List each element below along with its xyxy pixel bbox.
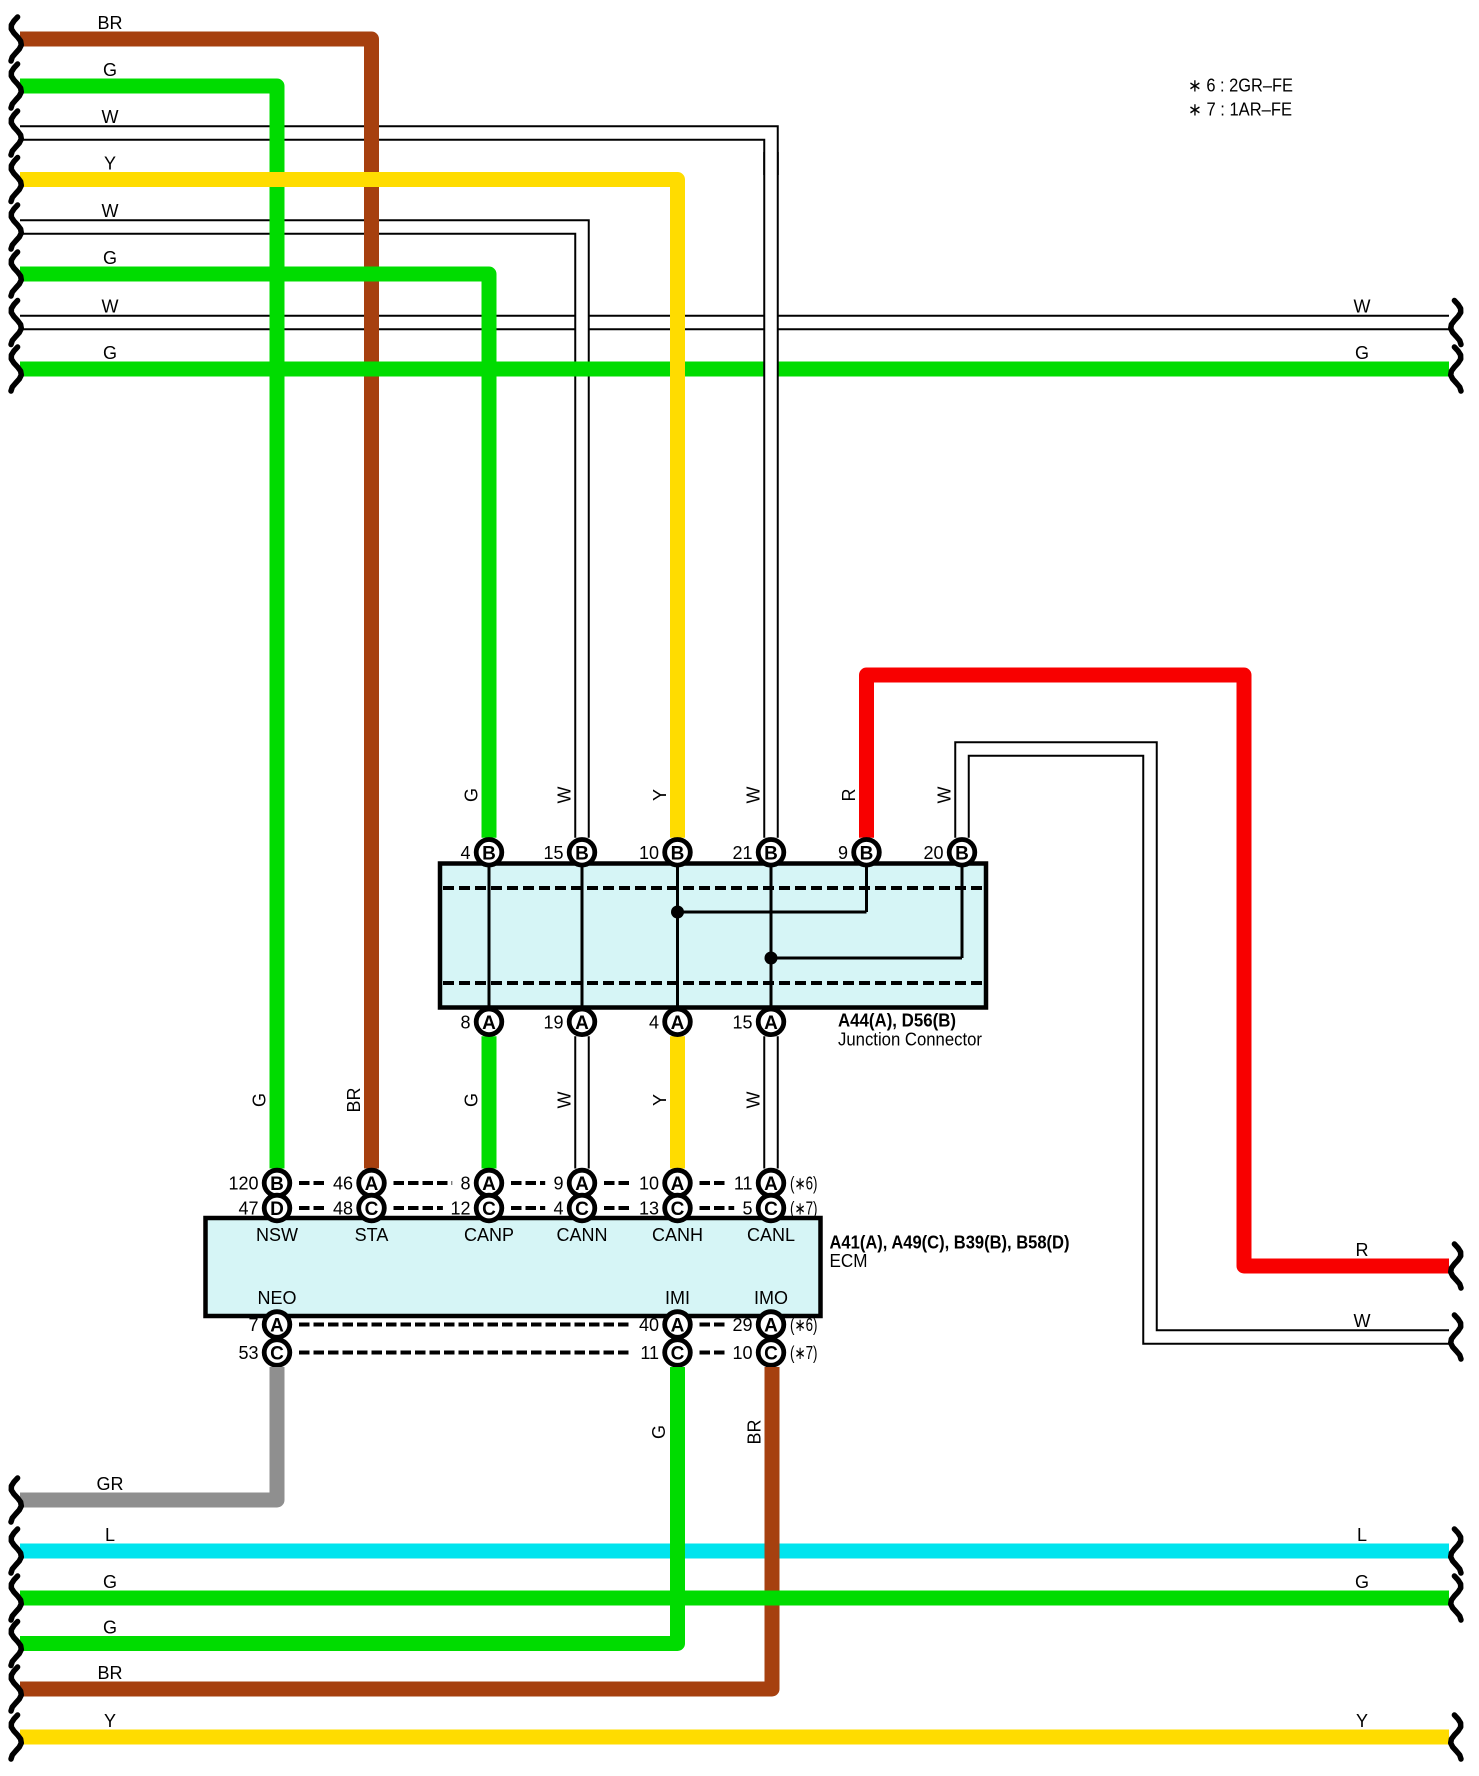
svg-text:(∗6): (∗6) bbox=[790, 1174, 818, 1194]
wire G from ECM 11C to left edge bbox=[20, 1367, 678, 1644]
ECM terminal name CANN bbox=[556, 1225, 607, 1245]
svg-text:7: 7 bbox=[248, 1315, 258, 1335]
junction connector label bbox=[838, 1011, 982, 1050]
wire color label L left bbox=[105, 1525, 115, 1545]
ECM pin 46(A) bbox=[333, 1170, 384, 1196]
svg-text:46: 46 bbox=[333, 1174, 353, 1194]
svg-text:9: 9 bbox=[838, 843, 848, 863]
svg-text:11: 11 bbox=[640, 1343, 659, 1363]
wire color label G left bbox=[103, 343, 117, 363]
svg-text:A: A bbox=[365, 1174, 379, 1195]
junction node joint 21B-20B bbox=[765, 952, 778, 965]
svg-text:D: D bbox=[270, 1199, 284, 1220]
svg-text:A: A bbox=[764, 1174, 778, 1195]
ECM pin variant note (*6) bottom bbox=[790, 1315, 818, 1335]
svg-text:53: 53 bbox=[238, 1343, 258, 1363]
svg-text:(∗7): (∗7) bbox=[790, 1343, 818, 1363]
wire color label W left bbox=[102, 297, 119, 317]
svg-text:4: 4 bbox=[460, 843, 470, 863]
ECM pin 11(C) bbox=[640, 1340, 690, 1366]
svg-text:CANH: CANH bbox=[652, 1225, 703, 1245]
wire R junction 9B to right edge bbox=[867, 675, 1450, 1266]
rotated label G above ECM bbox=[250, 1093, 270, 1107]
svg-text:19: 19 bbox=[543, 1012, 563, 1032]
ECM terminal name NSW bbox=[256, 1225, 298, 1245]
wire W vertical into junction 21B bbox=[763, 152, 779, 838]
svg-text:10: 10 bbox=[639, 843, 659, 863]
wire W junction 19A to ECM 9A bbox=[574, 1036, 590, 1168]
wire color label Y left bbox=[104, 154, 116, 174]
wire Y full-width bottom (Y) bbox=[20, 1730, 1449, 1745]
left edge break for G wire bbox=[11, 252, 21, 296]
svg-text:A44(A), D56(B): A44(A), D56(B) bbox=[838, 1011, 956, 1031]
junction pin 10(B) bbox=[639, 840, 690, 866]
wire Y from left to junction 10B bbox=[20, 180, 678, 838]
svg-text:L: L bbox=[105, 1525, 115, 1545]
svg-text:(∗6): (∗6) bbox=[790, 1315, 818, 1335]
svg-text:15: 15 bbox=[732, 1012, 752, 1032]
wire color label L right bbox=[1357, 1525, 1367, 1545]
svg-text:8: 8 bbox=[460, 1012, 470, 1032]
svg-text:IMO: IMO bbox=[754, 1288, 788, 1308]
svg-text:29: 29 bbox=[732, 1315, 752, 1335]
ECM pin 10(C) bbox=[732, 1340, 783, 1366]
svg-text:BR: BR bbox=[344, 1087, 364, 1112]
ECM pin 4(C) bbox=[553, 1195, 594, 1221]
ECM pin 13(C) bbox=[639, 1195, 690, 1221]
left edge break for G wire bbox=[11, 64, 21, 108]
svg-text:NEO: NEO bbox=[257, 1288, 296, 1308]
rotated label W above ECM bbox=[744, 1092, 764, 1109]
svg-text:A: A bbox=[575, 1013, 589, 1034]
svg-text:Y: Y bbox=[1356, 1711, 1368, 1731]
svg-text:ECM: ECM bbox=[830, 1251, 868, 1271]
svg-text:CANN: CANN bbox=[556, 1225, 607, 1245]
svg-text:∗ 7 : 1AR–FE: ∗ 7 : 1AR–FE bbox=[1188, 100, 1292, 120]
svg-text:A: A bbox=[764, 1013, 778, 1034]
svg-text:G: G bbox=[103, 248, 117, 268]
svg-text:G: G bbox=[250, 1093, 270, 1107]
wire color label W left bbox=[102, 107, 119, 127]
wire color label W right bbox=[1354, 1311, 1371, 1331]
wire color label Y right bbox=[1356, 1711, 1368, 1731]
junction pin 4(B) bbox=[460, 840, 501, 866]
svg-text:B: B bbox=[270, 1174, 284, 1195]
right edge break for L wire bbox=[1451, 1529, 1461, 1573]
junction node joint 10B-9B bbox=[671, 906, 684, 919]
junction pin 9(B) bbox=[838, 840, 879, 866]
svg-text:C: C bbox=[270, 1344, 284, 1365]
ECM pin 7(A) bbox=[248, 1312, 289, 1338]
svg-text:15: 15 bbox=[543, 843, 563, 863]
svg-text:C: C bbox=[671, 1344, 685, 1365]
ECM pin 53(C) bbox=[238, 1340, 289, 1366]
svg-text:G: G bbox=[103, 60, 117, 80]
svg-text:B: B bbox=[482, 843, 496, 864]
wire W full-width upper (W) bbox=[20, 315, 1449, 331]
svg-text:A: A bbox=[575, 1174, 589, 1195]
left edge break for G wire bbox=[11, 347, 21, 391]
svg-text:W: W bbox=[744, 787, 764, 804]
svg-text:5: 5 bbox=[742, 1199, 752, 1219]
svg-text:21: 21 bbox=[732, 843, 752, 863]
junction pin 4(A) bbox=[649, 1009, 690, 1035]
junction pin 8(A) bbox=[460, 1009, 501, 1035]
svg-text:G: G bbox=[1355, 343, 1369, 363]
wire color label BR left bbox=[97, 1663, 122, 1683]
svg-text:40: 40 bbox=[639, 1315, 659, 1335]
wire G junction 8A to ECM 8A bbox=[482, 1036, 497, 1168]
left edge break for BR wire bbox=[11, 1667, 21, 1711]
svg-text:Y: Y bbox=[650, 789, 670, 801]
svg-text:B: B bbox=[955, 843, 969, 864]
rotated label BR below ECM bbox=[745, 1419, 765, 1444]
svg-text:W: W bbox=[1354, 1311, 1371, 1331]
wire GR from ECM 53C to left edge bbox=[20, 1367, 277, 1500]
svg-text:A: A bbox=[270, 1316, 284, 1337]
svg-text:A: A bbox=[764, 1316, 778, 1337]
rotated label BR above ECM bbox=[344, 1087, 364, 1112]
rotated label G above ECM bbox=[462, 1093, 482, 1107]
svg-text:B: B bbox=[860, 843, 874, 864]
svg-text:G: G bbox=[462, 1093, 482, 1107]
svg-text:8: 8 bbox=[460, 1174, 470, 1194]
svg-text:W: W bbox=[935, 787, 955, 804]
wire color label G left bbox=[103, 1572, 117, 1592]
svg-text:B: B bbox=[764, 843, 778, 864]
ECM top pin tie dashes bbox=[299, 1183, 734, 1208]
wire BR from left to ECM pin 46A bbox=[20, 39, 372, 1169]
left edge break for G wire bbox=[11, 1576, 21, 1620]
svg-text:CANP: CANP bbox=[464, 1225, 514, 1245]
svg-text:48: 48 bbox=[333, 1199, 353, 1219]
svg-text:10: 10 bbox=[639, 1174, 659, 1194]
left edge break for W wire bbox=[11, 301, 21, 345]
wire color label G left bbox=[103, 248, 117, 268]
ECM A41(A)/A49(C)/B39(B)/B58(D) box bbox=[206, 1218, 821, 1316]
left edge break for W wire bbox=[11, 111, 21, 155]
ECM terminal name STA bbox=[355, 1225, 389, 1245]
rotated label Y above ECM bbox=[650, 1094, 670, 1106]
svg-text:47: 47 bbox=[238, 1199, 258, 1219]
wire color label Y left bbox=[104, 1711, 116, 1731]
wire BR from ECM 10C to left edge bbox=[20, 1367, 772, 1689]
junction pin 15(B) bbox=[543, 840, 594, 866]
ECM terminal name NEO bbox=[257, 1288, 296, 1308]
svg-text:Y: Y bbox=[104, 154, 116, 174]
svg-text:A: A bbox=[482, 1174, 496, 1195]
svg-text:∗ 6 : 2GR–FE: ∗ 6 : 2GR–FE bbox=[1188, 76, 1293, 96]
rotated label W above junction bbox=[555, 787, 575, 804]
svg-text:(∗7): (∗7) bbox=[790, 1199, 818, 1219]
left edge break for Y wire bbox=[11, 158, 21, 202]
svg-text:C: C bbox=[365, 1199, 379, 1220]
left edge break for G wire bbox=[11, 1622, 21, 1666]
ECM pin 29(A) bbox=[732, 1312, 783, 1338]
svg-text:20: 20 bbox=[923, 843, 943, 863]
wire color label G left bbox=[103, 60, 117, 80]
svg-text:W: W bbox=[555, 1092, 575, 1109]
svg-text:A: A bbox=[671, 1174, 685, 1195]
ECM pin variant note (*6) bbox=[790, 1174, 818, 1194]
wire W junction 20B to right edge bbox=[962, 749, 1449, 1337]
svg-text:G: G bbox=[103, 1618, 117, 1638]
svg-text:G: G bbox=[103, 343, 117, 363]
right edge break for W wire bbox=[1451, 1315, 1461, 1359]
ECM terminal name IMI bbox=[665, 1288, 690, 1308]
svg-text:Y: Y bbox=[650, 1094, 670, 1106]
svg-text:BR: BR bbox=[97, 13, 122, 33]
rotated label W above junction bbox=[744, 787, 764, 804]
wire color label W left bbox=[102, 201, 119, 221]
svg-text:Junction Connector: Junction Connector bbox=[838, 1030, 982, 1050]
ECM pin 9(A) bbox=[553, 1170, 594, 1196]
ECM pin 48(C) bbox=[333, 1195, 384, 1221]
svg-text:A41(A), A49(C), B39(B), B58(D): A41(A), A49(C), B39(B), B58(D) bbox=[830, 1233, 1070, 1253]
wire color label GR left bbox=[97, 1474, 124, 1494]
wire color label G left bbox=[103, 1618, 117, 1638]
svg-text:W: W bbox=[102, 201, 119, 221]
left edge break for GR wire bbox=[11, 1478, 21, 1522]
wire color label G right bbox=[1355, 1572, 1369, 1592]
rotated label Y above junction bbox=[650, 789, 670, 801]
svg-text:B: B bbox=[671, 843, 685, 864]
left edge break for BR wire bbox=[11, 17, 21, 61]
junction pin 19(A) bbox=[543, 1009, 594, 1035]
wire G from left to ECM pin 120B bbox=[20, 86, 277, 1169]
ECM terminal name CANP bbox=[464, 1225, 514, 1245]
wire G full-width upper (G) bbox=[20, 362, 1449, 377]
ECM pin 40(A) bbox=[639, 1312, 690, 1338]
right edge break for Y wire bbox=[1451, 1715, 1461, 1759]
svg-text:L: L bbox=[1357, 1525, 1367, 1545]
wire W from left toward junction 21B (horizontal part) bbox=[20, 133, 771, 175]
svg-text:STA: STA bbox=[355, 1225, 389, 1245]
wire Y junction 4A to ECM 10A bbox=[670, 1036, 685, 1168]
svg-text:4: 4 bbox=[649, 1012, 659, 1032]
wire color label R right bbox=[1356, 1240, 1369, 1260]
svg-text:9: 9 bbox=[553, 1174, 563, 1194]
wire color label G right bbox=[1355, 343, 1369, 363]
svg-text:BR: BR bbox=[745, 1419, 765, 1444]
svg-text:CANL: CANL bbox=[747, 1225, 795, 1245]
ECM pin 5(C) bbox=[742, 1195, 783, 1221]
svg-text:G: G bbox=[462, 788, 482, 802]
svg-text:12: 12 bbox=[450, 1199, 470, 1219]
right edge break for W wire bbox=[1451, 301, 1461, 345]
junction connector A44(A)/D56(B) box with bus bars bbox=[440, 864, 986, 1008]
left edge break for W wire bbox=[11, 205, 21, 249]
note *7 engine variant bbox=[1188, 100, 1292, 120]
rotated label G above junction bbox=[462, 788, 482, 802]
ECM pin 12(C) bbox=[450, 1195, 501, 1221]
svg-text:W: W bbox=[555, 787, 575, 804]
ECM terminal name CANH bbox=[652, 1225, 703, 1245]
wire color label W right bbox=[1354, 297, 1371, 317]
svg-text:G: G bbox=[1355, 1572, 1369, 1592]
svg-text:A: A bbox=[671, 1316, 685, 1337]
right edge break for G wire bbox=[1451, 1576, 1461, 1620]
svg-text:Y: Y bbox=[104, 1711, 116, 1731]
svg-text:4: 4 bbox=[553, 1199, 563, 1219]
svg-text:C: C bbox=[575, 1199, 589, 1220]
wire color label BR left bbox=[97, 13, 122, 33]
ECM bottom pin tie dashes bbox=[299, 1325, 725, 1353]
ECM pin 120(B) bbox=[228, 1170, 289, 1196]
right edge break for G wire bbox=[1451, 347, 1461, 391]
svg-text:BR: BR bbox=[97, 1663, 122, 1683]
rotated label W above ECM bbox=[555, 1092, 575, 1109]
ECM pin 11(A) bbox=[734, 1170, 784, 1196]
junction pin 20(B) bbox=[923, 840, 974, 866]
ECM pin 10(A) bbox=[639, 1170, 690, 1196]
svg-text:NSW: NSW bbox=[256, 1225, 298, 1245]
svg-text:120: 120 bbox=[228, 1174, 258, 1194]
rotated label W above junction bbox=[935, 787, 955, 804]
note *6 engine variant bbox=[1188, 76, 1293, 96]
svg-text:C: C bbox=[671, 1199, 685, 1220]
ECM pin 8(A) bbox=[460, 1170, 501, 1196]
wire G full-width bottom (G) bbox=[20, 1591, 1449, 1606]
ECM pin 47(D) bbox=[238, 1195, 289, 1221]
svg-text:10: 10 bbox=[732, 1343, 752, 1363]
svg-text:G: G bbox=[103, 1572, 117, 1592]
svg-text:13: 13 bbox=[639, 1199, 659, 1219]
svg-text:W: W bbox=[744, 1092, 764, 1109]
rotated label R above junction bbox=[839, 789, 859, 802]
svg-text:GR: GR bbox=[97, 1474, 124, 1494]
svg-text:C: C bbox=[764, 1344, 778, 1365]
svg-text:R: R bbox=[839, 789, 859, 802]
svg-text:A: A bbox=[671, 1013, 685, 1034]
rotated label G below ECM bbox=[649, 1425, 669, 1439]
svg-text:W: W bbox=[1354, 297, 1371, 317]
svg-text:B: B bbox=[575, 843, 589, 864]
left edge break for Y wire bbox=[11, 1715, 21, 1759]
svg-text:W: W bbox=[102, 107, 119, 127]
svg-text:11: 11 bbox=[734, 1174, 753, 1194]
svg-text:A: A bbox=[482, 1013, 496, 1034]
svg-text:C: C bbox=[482, 1199, 496, 1220]
wire L full-width bottom (L) bbox=[20, 1544, 1449, 1559]
svg-text:IMI: IMI bbox=[665, 1288, 690, 1308]
svg-text:R: R bbox=[1356, 1240, 1369, 1260]
wire G from left to junction 4B bbox=[20, 274, 489, 838]
junction pin 21(B) bbox=[732, 840, 783, 866]
ECM pin variant note (*7) bbox=[790, 1199, 818, 1219]
wire W from left to junction 15B bbox=[20, 227, 582, 838]
svg-text:G: G bbox=[649, 1425, 669, 1439]
svg-text:W: W bbox=[102, 297, 119, 317]
svg-text:C: C bbox=[764, 1199, 778, 1220]
right edge break for R wire bbox=[1451, 1244, 1461, 1288]
junction pin 15(A) bbox=[732, 1009, 783, 1035]
ECM pin variant note (*7) bottom bbox=[790, 1343, 818, 1363]
wire W junction 15A to ECM 11A bbox=[763, 1036, 779, 1168]
ECM label bbox=[830, 1233, 1070, 1272]
ECM terminal name CANL bbox=[747, 1225, 795, 1245]
ECM terminal name IMO bbox=[754, 1288, 788, 1308]
left edge break for L wire bbox=[11, 1529, 21, 1573]
